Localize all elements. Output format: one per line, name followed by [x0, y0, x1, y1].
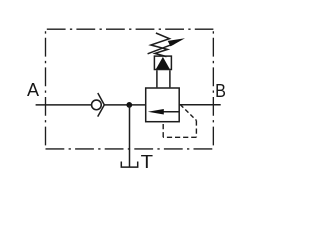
enclosure border bottom edge (dash-dot) [46, 148, 214, 150]
wire valve outlet to port B [179, 104, 221, 106]
pilot line up to valve bottom (dashed) [162, 123, 164, 138]
enclosure border top edge (dash-dot) [47, 28, 214, 30]
pilot line right vertical (dashed) [195, 120, 197, 137]
spring cap neck lines [157, 70, 170, 87]
relief valve body envelope [146, 88, 180, 122]
enclosure border left edge (dash-dot) [45, 29, 47, 149]
junction node [126, 102, 132, 108]
pilot line bottom horizontal (dashed) [163, 136, 196, 138]
flow path arrowhead (points left) [148, 109, 164, 115]
adjustment arrow shaft [148, 44, 174, 54]
adjustable spring zigzag [151, 33, 170, 57]
check valve CV1 ball [92, 100, 102, 110]
wire check valve to junction to valve inlet [104, 104, 145, 106]
enclosure border right edge (dash-dot) [212, 29, 214, 149]
svg-text:A: A [27, 80, 39, 100]
check valve CV1 seat [98, 93, 105, 117]
pilot cone box [154, 56, 171, 69]
wire port A to check valve [36, 104, 92, 106]
pilot line diagonal (dashed) [180, 105, 196, 121]
tank symbol [121, 162, 137, 168]
wire junction down to tank [129, 105, 131, 167]
svg-text:T: T [141, 152, 153, 172]
flow path arrow shaft inside valve [152, 111, 179, 113]
svg-text:B: B [215, 81, 226, 101]
adjustment arrowhead [168, 38, 185, 46]
pilot cone (filled triangle) [156, 57, 170, 69]
